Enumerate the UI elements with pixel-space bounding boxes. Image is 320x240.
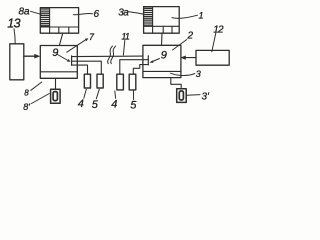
hatched strip 8a inside box 6 — [49, 8, 51, 34]
arrow 9 left — [58, 55, 69, 61]
resistor 4 (left) — [84, 74, 90, 88]
leader 3 — [171, 73, 195, 75]
leader 8 — [31, 82, 42, 90]
leader 4 left — [84, 89, 87, 98]
leader 5 right — [132, 90, 134, 99]
leader 3' — [187, 94, 200, 97]
leader 2 — [173, 40, 187, 51]
wire stub low-left — [72, 65, 88, 74]
box 2 (lower-right amplifier) — [143, 45, 181, 77]
svg-text:4: 4 — [78, 98, 84, 110]
box 12 — [196, 50, 229, 65]
svg-text:12: 12 — [213, 24, 224, 35]
leader 11 — [123, 41, 124, 56]
wire break symbol — [108, 46, 113, 64]
svg-text:5: 5 — [130, 100, 137, 112]
box 13 — [10, 44, 24, 80]
resistor 4 (right) — [117, 74, 124, 90]
wire box2 to transducer 3' — [171, 78, 181, 89]
component 9 in box 8 — [71, 56, 73, 66]
svg-text:3a: 3a — [118, 8, 129, 19]
transducer 3' — [177, 89, 187, 103]
svg-text:5: 5 — [92, 99, 99, 111]
svg-text:9: 9 — [52, 47, 58, 59]
arrow 9 right — [153, 59, 160, 62]
leader 8a — [31, 11, 42, 14]
divider of box 8 — [40, 71, 77, 73]
arrow box12 to box2 — [186, 57, 197, 59]
svg-text:7: 7 — [89, 32, 95, 42]
leader 5 left — [96, 89, 99, 99]
resistor 5 (right) — [129, 74, 136, 90]
cell row of box 1 — [144, 25, 180, 27]
svg-text:4: 4 — [111, 98, 117, 110]
cell row of box 6 — [40, 26, 78, 28]
svg-text:8a: 8a — [19, 7, 31, 18]
box 8 (lower-left amplifier) — [40, 46, 77, 79]
arrow 7 — [67, 40, 86, 53]
leader 8' — [32, 94, 50, 104]
leader 3a — [129, 12, 144, 15]
component 9 in box 2 — [147, 56, 149, 65]
leader 1 — [172, 15, 198, 18]
wire stub low-right — [133, 65, 148, 75]
svg-text:3': 3' — [202, 92, 211, 103]
svg-text:6: 6 — [94, 9, 100, 20]
transducer 8' — [51, 89, 61, 103]
hatched strip 3a inside box 1 — [152, 7, 154, 34]
leader 6 — [73, 13, 93, 14]
wire box6 to box8 — [59, 33, 63, 45]
svg-text:8': 8' — [23, 102, 30, 112]
svg-text:1: 1 — [199, 11, 204, 21]
leader 12 — [212, 33, 216, 52]
wire stub mid-left — [72, 61, 102, 74]
svg-text:13: 13 — [7, 17, 20, 31]
svg-text:3: 3 — [196, 69, 201, 79]
wire box1 to box2 — [161, 33, 164, 45]
leader 4 right — [114, 91, 117, 98]
divider of box 2 — [143, 70, 181, 72]
leader 13 — [14, 29, 15, 44]
svg-text:11: 11 — [121, 31, 130, 41]
box 1 (top-right unit) — [144, 7, 180, 34]
box 6 (top-left unit) — [40, 8, 78, 34]
wire main (box8 to box2) — [72, 55, 143, 58]
svg-text:9: 9 — [161, 50, 167, 62]
wire stub mid-right — [120, 60, 149, 74]
svg-text:8: 8 — [24, 88, 29, 97]
svg-text:2: 2 — [187, 31, 194, 42]
wire box8 to transducer 8' — [55, 78, 57, 89]
resistor 5 (left) — [97, 74, 103, 88]
arrow box13 to box8 — [24, 55, 35, 57]
